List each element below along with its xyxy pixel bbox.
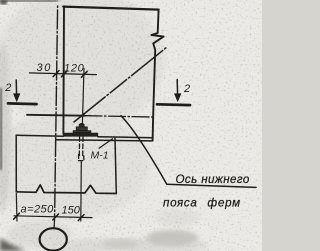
bearing plate lower line [56, 140, 153, 141]
svg-text:а=250: а=250 [21, 204, 55, 216]
scan artifact: bottom-left corner blob [0, 238, 26, 251]
scan artifact: top-left corner blob [0, 0, 7, 5]
leader line to note [121, 116, 256, 188]
scan artifact: bottom smudges [146, 230, 198, 246]
svg-text:30: 30 [37, 62, 52, 74]
extension line to bolt [82, 69, 84, 124]
svg-text:М-1: М-1 [91, 150, 109, 162]
svg-text:2: 2 [4, 82, 11, 94]
column top edge [63, 7, 158, 10]
scan artifact: top border streak [0, 0, 58, 2]
svg-text:2: 2 [183, 83, 190, 95]
svg-text:Ось нижнего: Ось нижнего [176, 173, 250, 186]
truss bottom chord axis (diagonal dash-dot) [74, 47, 167, 122]
extension line from bolt to bottom dimension [80, 161, 83, 221]
callout stem [53, 217, 56, 229]
column right face with break symbol [151, 10, 163, 141]
anchor bolt hidden shank (dashed) [78, 137, 80, 156]
left section cut line [8, 102, 37, 105]
column axis (vertical dash-dot) [55, 6, 58, 217]
bottom chord axis horizontal (dash-dot part) [85, 116, 153, 117]
callout circle [40, 228, 67, 250]
anchor bolt flange [73, 131, 91, 133]
bottom dimension line [14, 216, 92, 218]
svg-text:150: 150 [62, 205, 81, 217]
bearing top line (solid part) [27, 114, 85, 117]
right section cut line [157, 103, 190, 106]
left section arrow 2 [15, 80, 17, 96]
support block bottom edge with break marks [16, 185, 116, 194]
dimension line 30/120 [30, 73, 97, 75]
M-1 leader [99, 139, 113, 148]
tick at bolt line [81, 71, 87, 77]
anchor bolt hook end (dashed U) [79, 155, 84, 161]
svg-text:120: 120 [64, 63, 85, 75]
bearing plate bottom line (right of washer) [98, 137, 153, 138]
tick right [78, 215, 84, 221]
tick left [14, 213, 20, 219]
tick at axis [53, 71, 59, 77]
anchor bolt nut [76, 127, 87, 131]
support block right edge [115, 138, 116, 193]
left extension to bottom dimension [15, 194, 18, 222]
svg-text:пояса ферм: пояса ферм [163, 197, 241, 210]
tick at column face [61, 71, 67, 77]
column left face [62, 6, 65, 134]
right section arrow 2 [176, 80, 178, 96]
scan artifact: left border streak [0, 88, 2, 170]
anchor bolt head: tip nub [79, 123, 84, 127]
support block top edge (left of washer) [16, 135, 63, 136]
washer bar [63, 133, 98, 136]
tick axis [53, 214, 59, 220]
support block left edge [15, 135, 17, 192]
